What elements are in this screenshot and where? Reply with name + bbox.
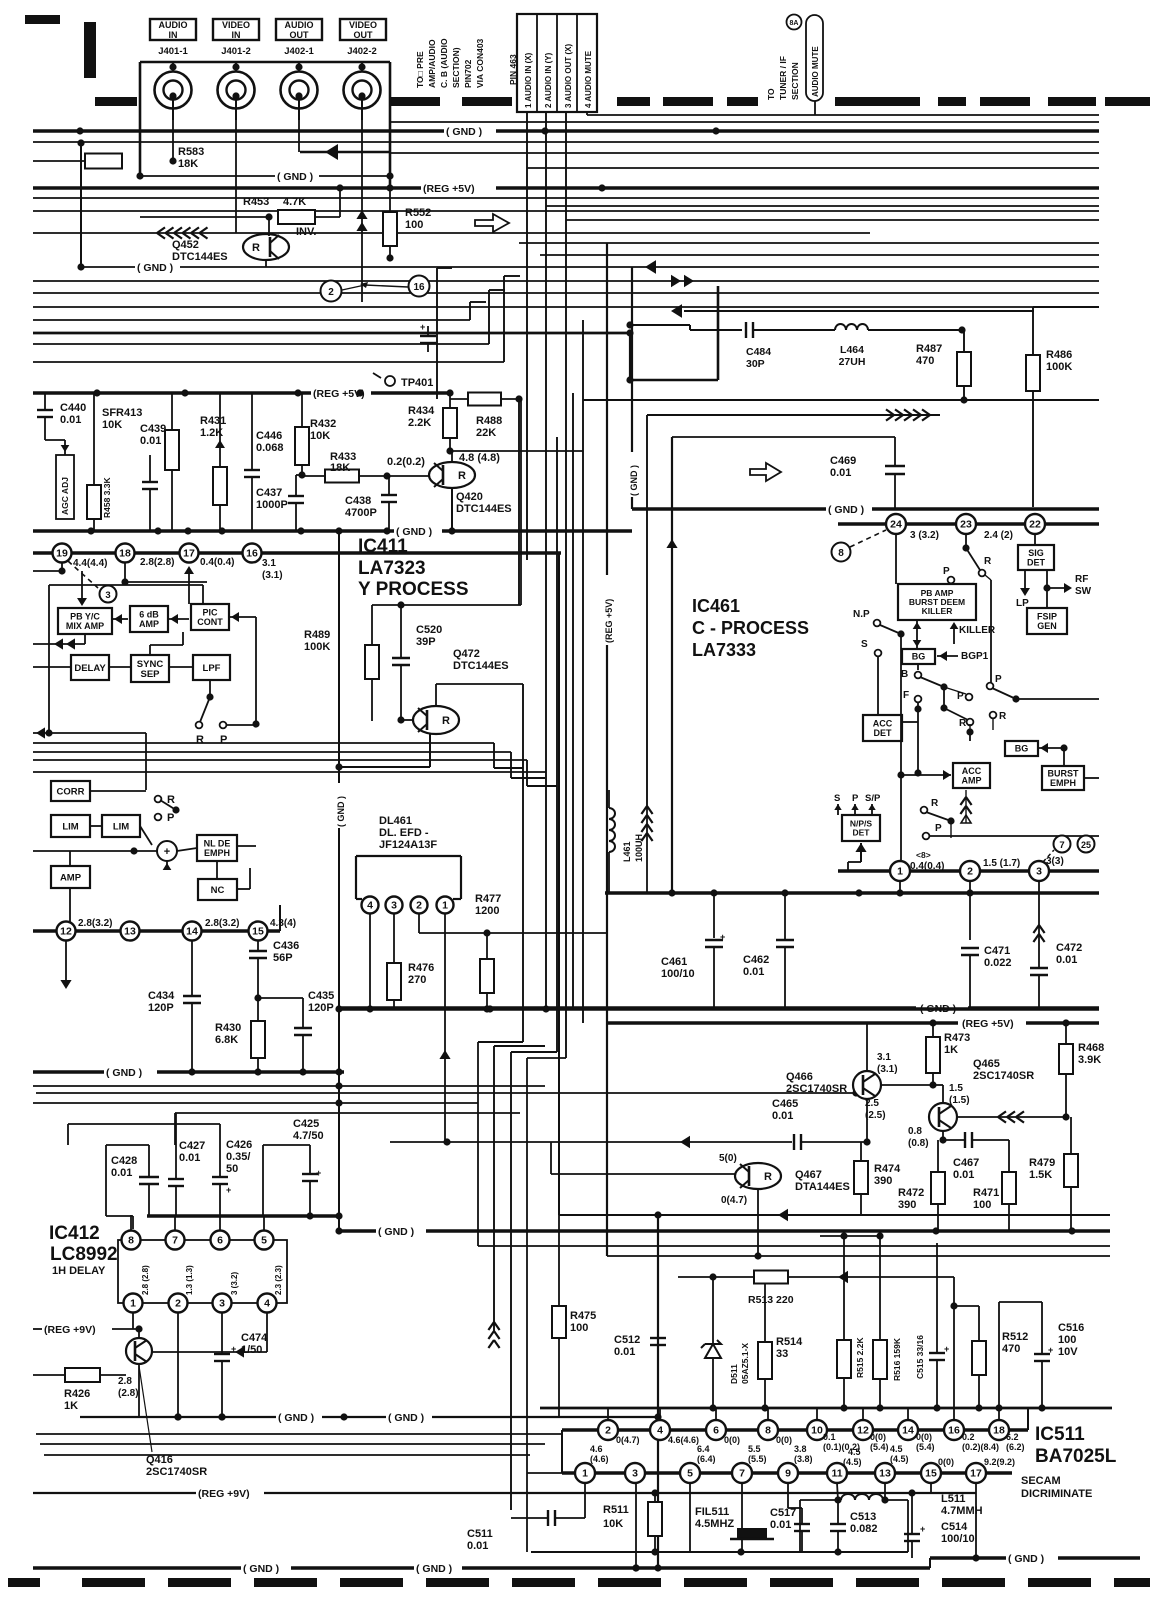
chevrons up x647 (641, 806, 652, 814)
wire summer (33, 850, 157, 852)
svg-text:R487: R487 (916, 343, 942, 355)
box CORR (51, 781, 90, 801)
pin ic412 4 (258, 1294, 277, 1313)
svg-text:1: 1 (582, 1468, 588, 1480)
arrow killer vert (916, 620, 918, 649)
wire bus y233 (33, 232, 870, 234)
label RF SW (1043, 584, 1050, 591)
svg-text:Q472: Q472 (453, 648, 480, 660)
svg-text:C465: C465 (772, 1098, 798, 1110)
wire pin rail y871 (838, 869, 1099, 873)
svg-text:3.1: 3.1 (877, 1052, 891, 1063)
svg-text:18: 18 (993, 1425, 1005, 1437)
wire rail y1215 (559, 1214, 1110, 1216)
svg-text:AMP: AMP (60, 872, 82, 883)
svg-text:TP401: TP401 (401, 377, 433, 389)
potentiometer AGC ADJ (56, 455, 74, 519)
svg-text:3: 3 (391, 900, 397, 912)
svg-text:11: 11 (831, 1468, 842, 1480)
pin 19 (53, 544, 72, 563)
svg-text:2.8(3.2): 2.8(3.2) (78, 918, 112, 929)
svg-text:6.8K: 6.8K (215, 1034, 238, 1046)
resistor R433 18K (325, 470, 359, 483)
svg-text:2 AUDIO IN (Y): 2 AUDIO IN (Y) (544, 52, 553, 108)
svg-text:( GND ): ( GND ) (278, 1412, 314, 1424)
svg-text:1: 1 (442, 900, 448, 912)
svg-text:LA7333: LA7333 (692, 640, 756, 660)
svg-text:6 dB: 6 dB (139, 609, 159, 619)
svg-text:8: 8 (838, 548, 844, 559)
svg-text:(3.8): (3.8) (794, 1454, 813, 1464)
svg-text:18K: 18K (330, 462, 350, 474)
pin 18 (116, 544, 135, 563)
svg-text:NL DE: NL DE (204, 838, 231, 848)
svg-text:270: 270 (408, 974, 426, 986)
pin 12 (57, 922, 76, 941)
svg-text:AUDIO: AUDIO (285, 20, 314, 30)
svg-text:0.022: 0.022 (984, 957, 1012, 969)
svg-text:C511: C511 (467, 1528, 493, 1540)
wire y400 (583, 399, 1099, 401)
svg-text:0(0): 0(0) (724, 1435, 740, 1445)
svg-text:BURST: BURST (1048, 768, 1080, 778)
svg-text:0(0): 0(0) (916, 1432, 932, 1442)
svg-text:2: 2 (328, 287, 334, 298)
pin ic511 3 (625, 1463, 645, 1483)
svg-text:DL461: DL461 (379, 815, 412, 827)
svg-text:R458 3.3K: R458 3.3K (102, 477, 112, 518)
box ACC AMP (953, 763, 990, 788)
wire bus y255 (540, 254, 1099, 256)
svg-text:DTC144ES: DTC144ES (453, 660, 509, 672)
wire amp (69, 888, 71, 931)
arrow left chevrons y644 (33, 643, 85, 645)
svg-text:0.01: 0.01 (60, 414, 81, 426)
box PB Y/C MIX AMP (58, 608, 112, 634)
svg-text:J401-2: J401-2 (221, 46, 251, 57)
svg-text:R434: R434 (408, 405, 435, 417)
svg-text:FSIP: FSIP (1037, 611, 1057, 621)
svg-text:MIX AMP: MIX AMP (66, 621, 104, 631)
svg-text:0.01: 0.01 (140, 435, 161, 447)
svg-text:SW: SW (1075, 586, 1092, 597)
wire jack3 drop (298, 118, 300, 152)
wire vert x527 (526, 112, 528, 560)
wire y380 (630, 379, 718, 382)
node 8A circle (787, 15, 802, 30)
pin 22 (1025, 514, 1045, 534)
svg-text:L511: L511 (941, 1493, 965, 1505)
wire ic511 rail odd (562, 1471, 1012, 1475)
svg-text:( GND ): ( GND ) (446, 126, 482, 138)
svg-text:(1.5): (1.5) (949, 1095, 970, 1106)
wire y415 chevrons (647, 414, 940, 416)
svg-text:120P: 120P (148, 1002, 174, 1014)
box BG 2 (1005, 741, 1038, 756)
pin 24 (886, 514, 906, 534)
svg-text:(REG +5V): (REG +5V) (423, 183, 475, 195)
svg-text:Q467: Q467 (795, 1169, 822, 1181)
svg-text:BG: BG (912, 652, 926, 662)
svg-text:2: 2 (175, 1298, 181, 1310)
svg-text:VIDEO: VIDEO (222, 20, 250, 30)
wire pin5 down (689, 1483, 691, 1552)
wire pin3 drop (1038, 881, 1040, 925)
svg-text:IC412: IC412 (49, 1223, 100, 1244)
jack J402-2 VIDEO OUT (344, 72, 381, 109)
svg-text:DICRIMINATE: DICRIMINATE (1021, 1488, 1092, 1500)
svg-text:4.6: 4.6 (590, 1444, 603, 1454)
resistor R458 3.3K (87, 485, 101, 519)
svg-text:6: 6 (713, 1425, 719, 1437)
svg-text:R430: R430 (215, 1022, 241, 1034)
pin ic511 10 (807, 1420, 827, 1440)
wire bus y307 (33, 306, 1099, 308)
svg-text:( GND ): ( GND ) (336, 796, 346, 827)
svg-text:OUT: OUT (354, 30, 374, 40)
svg-text:2SC1740SR: 2SC1740SR (146, 1466, 207, 1478)
zener D511 (709, 1273, 716, 1280)
svg-text:SECTION): SECTION) (451, 47, 461, 88)
resistor R486 100K (1026, 355, 1040, 391)
wire R453 (265, 213, 272, 220)
svg-text:R472: R472 (898, 1187, 924, 1199)
wire GND step right (632, 507, 826, 511)
svg-text:(4.6): (4.6) (590, 1454, 609, 1464)
wire vert x511 (510, 1052, 512, 1510)
svg-text:470: 470 (1002, 1343, 1020, 1355)
switch R/P under LPF (209, 680, 211, 697)
svg-text:1H DELAY: 1H DELAY (52, 1265, 106, 1277)
ic412 outline (118, 1240, 287, 1303)
svg-text:S/P: S/P (865, 793, 881, 804)
svg-text:2.4 (2): 2.4 (2) (984, 530, 1013, 541)
svg-text:5(0): 5(0) (719, 1153, 737, 1164)
svg-text:R431: R431 (200, 415, 226, 427)
svg-text:C426: C426 (226, 1139, 252, 1151)
delay line DL461 box (355, 856, 357, 899)
svg-text:22: 22 (1029, 519, 1041, 531)
svg-text:P: P (220, 734, 227, 746)
svg-text:0.01: 0.01 (111, 1167, 132, 1179)
box PIC CONT (191, 604, 229, 630)
wire bus y344 (33, 343, 489, 345)
svg-text:27UH: 27UH (839, 356, 866, 368)
svg-text:( GND ): ( GND ) (137, 262, 173, 274)
svg-text:1: 1 (897, 866, 903, 878)
svg-text:R432: R432 (310, 418, 336, 430)
svg-text:R426: R426 (64, 1388, 90, 1400)
svg-text:C437: C437 (256, 487, 282, 499)
connector label AUDIO IN (150, 19, 196, 40)
svg-text:(4.5): (4.5) (843, 1457, 862, 1467)
ic412 top wires (130, 1215, 132, 1230)
svg-text:3.8: 3.8 (794, 1444, 807, 1454)
svg-text:0.082: 0.082 (850, 1523, 878, 1535)
wire jog x470 (469, 302, 471, 320)
wire y1552 (531, 1551, 908, 1553)
svg-text:3.9K: 3.9K (1078, 1054, 1101, 1066)
svg-text:TO□ PRE: TO□ PRE (415, 51, 425, 88)
wire bus y293 (33, 292, 1099, 294)
wire jog y752 (510, 752, 512, 778)
pin ic511 7 (732, 1463, 752, 1483)
svg-text:C520: C520 (416, 624, 442, 636)
wire pin13 down (884, 1483, 886, 1500)
pin ic511 13 (875, 1463, 895, 1483)
bottom dashed border (8, 1578, 40, 1587)
svg-text:BA7025L: BA7025L (1035, 1446, 1117, 1467)
pin 2 ic461 (960, 861, 980, 881)
svg-text:( GND ): ( GND ) (243, 1563, 279, 1575)
svg-text:4700P: 4700P (345, 507, 377, 519)
svg-text:(0.8): (0.8) (908, 1138, 929, 1149)
svg-text:15: 15 (252, 926, 264, 938)
svg-text:PIC: PIC (202, 607, 218, 617)
wire Q472 collector (435, 684, 437, 706)
svg-text:0(4.7): 0(4.7) (721, 1195, 747, 1206)
svg-text:0(0): 0(0) (776, 1435, 792, 1445)
svg-text:9: 9 (785, 1468, 791, 1480)
svg-text:P: P (852, 793, 859, 804)
svg-text:C467: C467 (953, 1157, 979, 1169)
svg-text:0.1: 0.1 (823, 1432, 836, 1442)
transistor Q416 (126, 1338, 152, 1364)
svg-text:C484: C484 (746, 346, 771, 358)
svg-text:R583: R583 (178, 146, 204, 158)
svg-text:( GND ): ( GND ) (920, 1003, 956, 1015)
arrow into NPS (860, 843, 862, 862)
svg-text:N.P: N.P (853, 609, 870, 620)
svg-text:12: 12 (60, 926, 72, 938)
svg-text:0.068: 0.068 (256, 442, 284, 454)
wire vert x573 (572, 393, 574, 1009)
svg-text:+: + (231, 1344, 236, 1354)
wire bus y1086 (33, 1085, 545, 1087)
svg-text:10K: 10K (102, 419, 122, 431)
svg-text:(6.2): (6.2) (1006, 1442, 1025, 1452)
svg-text:ACC: ACC (873, 718, 893, 728)
transistor Q452 (243, 234, 289, 260)
svg-text:IC461: IC461 (692, 596, 740, 616)
jack J401-2 VIDEO IN (218, 72, 255, 109)
wire jack1 drop (172, 118, 174, 161)
svg-text:1: 1 (130, 1298, 136, 1310)
svg-text:D511: D511 (729, 1364, 739, 1384)
svg-text:1.5 (1.7): 1.5 (1.7) (983, 858, 1020, 869)
svg-text:4.5: 4.5 (890, 1444, 903, 1454)
inductor L513 coil (800, 1499, 838, 1501)
wire bus y1103 (33, 1102, 478, 1104)
box 6 dB AMP (130, 606, 168, 632)
svg-text:BGP1: BGP1 (961, 651, 989, 662)
net label AUDIO MUTE stadium (806, 15, 823, 101)
wire jack4 drop (361, 118, 363, 302)
svg-text:TUNER / IF: TUNER / IF (778, 56, 788, 100)
svg-text:2.8 (2.8): 2.8 (2.8) (141, 1265, 150, 1295)
wire vert x566 (565, 112, 567, 1058)
svg-text:ACC: ACC (962, 766, 982, 776)
wire vert x494 (544, 1045, 546, 1047)
wire staircase y772 (33, 771, 546, 773)
svg-text:1.3 (1.3): 1.3 (1.3) (185, 1265, 194, 1295)
wire Q472 emitter (429, 734, 431, 767)
wire y571 (33, 570, 62, 572)
svg-text:0.2: 0.2 (962, 1432, 975, 1442)
svg-text:P: P (935, 823, 942, 834)
svg-text:(5.4): (5.4) (916, 1442, 935, 1452)
wire jog y743 (493, 743, 495, 768)
node 8 circle (832, 543, 851, 562)
svg-text:( GND ): ( GND ) (106, 1067, 142, 1079)
pin DL 3 (386, 897, 403, 914)
svg-text:3.1: 3.1 (262, 558, 276, 569)
svg-text:C471: C471 (984, 945, 1010, 957)
svg-text:8: 8 (765, 1425, 771, 1437)
wire pin2 down (177, 1313, 179, 1417)
svg-text:16: 16 (413, 282, 425, 293)
arrow open right c469 (750, 463, 781, 481)
svg-text:4.5: 4.5 (848, 1447, 861, 1457)
wire rail y1256 (607, 1255, 1110, 1257)
svg-text:2.8(2.8): 2.8(2.8) (140, 557, 174, 568)
svg-text:LIM: LIM (62, 821, 78, 832)
svg-text:C - PROCESS: C - PROCESS (692, 618, 809, 638)
svg-text:R: R (984, 556, 992, 567)
pin 17 (180, 544, 199, 563)
svg-text:390: 390 (874, 1175, 892, 1187)
svg-text:25: 25 (1081, 840, 1091, 850)
svg-text:SFR413: SFR413 (102, 407, 142, 419)
transistor Q420 (429, 462, 475, 488)
svg-text:0.4(0.4): 0.4(0.4) (200, 557, 234, 568)
wire arrow into PB (81, 571, 83, 604)
wire bus y198 (33, 197, 1099, 199)
svg-text:100: 100 (405, 219, 423, 231)
svg-text:CORR: CORR (57, 786, 85, 797)
svg-text:( GND ): ( GND ) (277, 171, 313, 183)
wire rail y1246 (478, 1245, 1110, 1247)
svg-text:4.7K: 4.7K (283, 196, 306, 208)
connector frame (140, 61, 390, 64)
svg-text:3: 3 (632, 1468, 638, 1480)
svg-text:6.4: 6.4 (697, 1444, 710, 1454)
wire pin rail y553 (33, 551, 561, 555)
svg-text:0.01: 0.01 (179, 1152, 200, 1164)
svg-text:R473: R473 (944, 1032, 970, 1044)
svg-text:LA7323: LA7323 (358, 558, 426, 579)
svg-text:2.8(3.2): 2.8(3.2) (205, 918, 239, 929)
svg-text:(5.4): (5.4) (870, 1442, 889, 1452)
svg-text:+: + (420, 322, 425, 332)
capacitor C484 30P (745, 322, 747, 338)
svg-text:( GND ): ( GND ) (416, 1563, 452, 1575)
wire caps bottom rail (147, 1214, 339, 1218)
svg-text:100: 100 (973, 1199, 991, 1211)
connector label AUDIO OUT (276, 19, 322, 40)
svg-text:AGC ADJ: AGC ADJ (60, 477, 70, 515)
svg-text:+: + (164, 846, 170, 858)
pin ic412 5 (255, 1231, 274, 1250)
svg-text:KILLER: KILLER (922, 606, 953, 616)
svg-text:R: R (999, 711, 1007, 722)
svg-text:13: 13 (879, 1468, 891, 1480)
wire bus y362 (33, 361, 504, 363)
wire y330 (630, 324, 690, 326)
pin ic511 18 (989, 1420, 1009, 1440)
resistor R434 2.2K (443, 408, 457, 438)
svg-text:390: 390 (898, 1199, 916, 1211)
page corner mark top-left (25, 15, 60, 24)
svg-text:C515 33/16: C515 33/16 (915, 1335, 925, 1379)
svg-text:DET: DET (874, 728, 893, 738)
wire GND rail y1072 (33, 1070, 104, 1074)
svg-text:L461: L461 (622, 841, 632, 862)
wire bus y320 (33, 319, 470, 321)
svg-text:33: 33 (776, 1348, 788, 1360)
wire pin2 drop (969, 881, 971, 940)
svg-text:C446: C446 (256, 430, 282, 442)
box FSIP GEN (1027, 608, 1067, 634)
svg-text:2.3 (2.3): 2.3 (2.3) (274, 1265, 283, 1295)
wire vert x546 (545, 112, 547, 1009)
svg-text:OUT: OUT (290, 30, 310, 40)
svg-text:4.6(4.6): 4.6(4.6) (668, 1435, 699, 1445)
wire bus y243 (519, 242, 1099, 244)
resistor R489 body (365, 645, 379, 679)
svg-text:SEP: SEP (140, 669, 160, 680)
svg-text:( GND ): ( GND ) (378, 1226, 414, 1238)
svg-text:S: S (861, 639, 868, 650)
svg-text:R516 159K: R516 159K (892, 1337, 902, 1381)
wire bus y206 (546, 205, 1099, 207)
svg-text:1.5: 1.5 (949, 1083, 963, 1094)
wire bus y142 (33, 141, 1099, 143)
arrow PIC->6dB (168, 618, 189, 620)
wire vert x607 REG+5V (606, 243, 608, 575)
svg-text:Q452: Q452 (172, 239, 199, 251)
wire pin17 arrow (184, 566, 194, 574)
wire y733 (33, 732, 146, 734)
wire rail y893 (605, 891, 1099, 895)
arrow into PIC (228, 616, 256, 618)
wire bus y333 (33, 332, 630, 335)
arrow 6dB->PB (112, 618, 128, 620)
svg-text:L464: L464 (840, 344, 864, 356)
svg-text:0(4.7): 0(4.7) (616, 1435, 640, 1445)
svg-text:DL. EFD -: DL. EFD - (379, 827, 429, 839)
wire rail y1408 (540, 1407, 1112, 1410)
svg-text:RF: RF (1075, 574, 1088, 585)
svg-text:C. B (AUDIO: C. B (AUDIO (439, 38, 449, 88)
switch R pair (940, 704, 947, 711)
svg-text:PIN702: PIN702 (463, 59, 473, 88)
svg-text:AUDIO: AUDIO (159, 20, 188, 30)
svg-text:3: 3 (219, 1298, 225, 1310)
pin 16 (243, 544, 262, 563)
svg-text:0.01: 0.01 (743, 966, 764, 978)
wire rail y1231 GND (339, 1229, 376, 1233)
pin ic511 11 (827, 1463, 847, 1483)
wire vert x583 (582, 320, 584, 1023)
wire pin24 drop (895, 534, 897, 584)
svg-text:2.5: 2.5 (865, 1098, 879, 1109)
svg-text:NC: NC (211, 885, 225, 896)
svg-text:DTC144ES: DTC144ES (172, 251, 228, 263)
node 16 circle (409, 276, 430, 297)
svg-text:9.2(9.2): 9.2(9.2) (984, 1457, 1015, 1467)
svg-text:17: 17 (970, 1468, 982, 1480)
